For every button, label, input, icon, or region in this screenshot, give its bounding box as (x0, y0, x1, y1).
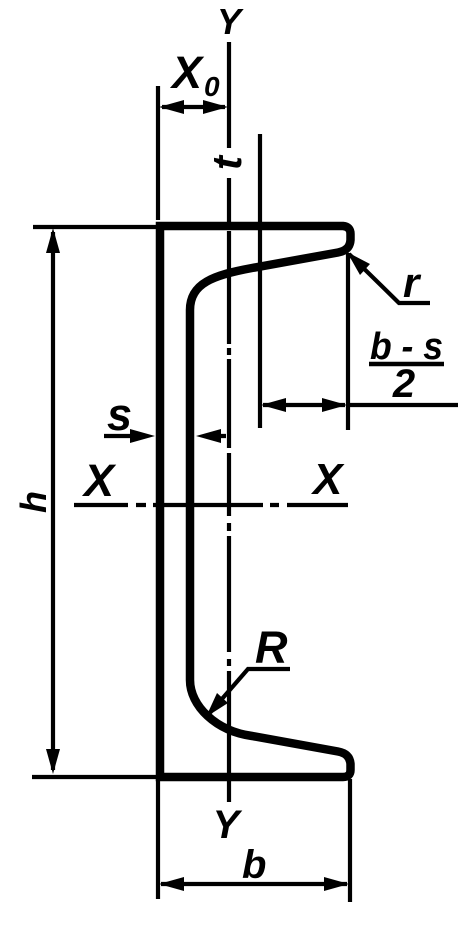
svg-text:X: X (81, 455, 117, 506)
svg-text:b: b (242, 843, 266, 887)
svg-text:2: 2 (392, 362, 415, 406)
svg-text:t: t (203, 154, 250, 170)
svg-text:0: 0 (204, 71, 220, 102)
svg-text:s: s (107, 389, 132, 440)
svg-text:h: h (13, 491, 54, 513)
svg-text:X: X (310, 455, 345, 504)
svg-text:R: R (255, 622, 288, 673)
svg-text:r: r (403, 259, 422, 306)
svg-text:Y: Y (213, 803, 243, 847)
svg-text:Y: Y (217, 1, 244, 42)
svg-text:X: X (169, 47, 205, 98)
